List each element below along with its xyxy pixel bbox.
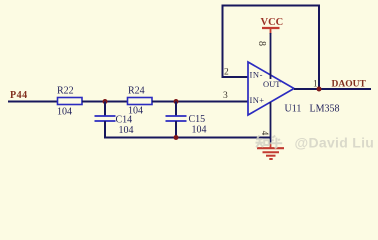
svg-text:8: 8 [256, 41, 267, 46]
ground [257, 144, 284, 160]
wire output [294, 88, 371, 90]
svg-text:U11: U11 [285, 104, 302, 115]
wire feedback left vertical [222, 6, 224, 79]
svg-text:104: 104 [192, 125, 207, 136]
svg-text:104: 104 [128, 106, 143, 117]
wire pin 2 horizontal [222, 76, 249, 78]
wire R22 to R24 [82, 101, 128, 103]
pin 4 label [260, 131, 270, 136]
svg-text:104: 104 [57, 107, 72, 118]
VCC power symbol [261, 17, 284, 34]
node junction at C14 top [103, 99, 108, 104]
wire C15 bottom drop [175, 121, 177, 139]
svg-text:104: 104 [119, 125, 134, 136]
wire R24 to op-amp pin 3 [152, 101, 248, 103]
svg-text:@David Liu: @David Liu [295, 135, 375, 151]
wire C14 bottom drop [104, 121, 106, 139]
capacitor C15 [166, 114, 207, 136]
wire feedback right vertical [318, 6, 320, 91]
svg-text:DAOUT: DAOUT [332, 80, 367, 90]
svg-text:IN+: IN+ [250, 95, 265, 105]
pin 8 label [256, 41, 267, 46]
svg-text:R22: R22 [57, 86, 74, 97]
svg-text:C15: C15 [189, 114, 206, 125]
port P44 [10, 90, 28, 101]
node junction at C15 top [174, 99, 179, 104]
pin 3 label [223, 91, 228, 101]
svg-text:3: 3 [223, 91, 228, 101]
op-amp U11 [248, 62, 340, 115]
svg-text:1: 1 [313, 80, 318, 90]
svg-text:IN-: IN- [250, 70, 264, 80]
wire C15 top drop [175, 102, 177, 117]
svg-text:LM358: LM358 [310, 104, 340, 115]
resistor R24 [128, 86, 153, 117]
node junction at output [317, 87, 322, 92]
node junction at C15 bottom [174, 135, 179, 140]
svg-text:P44: P44 [10, 90, 28, 101]
pin 2 label [224, 68, 229, 78]
wire C14 top drop [104, 102, 106, 117]
wire pin 4 to ground [270, 102, 272, 145]
resistor R22 [57, 86, 82, 118]
svg-text:4: 4 [260, 131, 270, 136]
svg-text:VCC: VCC [261, 17, 284, 28]
wire VCC to pin 8 [270, 33, 272, 79]
svg-text:R24: R24 [128, 86, 145, 97]
capacitor C14 [95, 115, 134, 137]
svg-text:OUT: OUT [263, 79, 281, 89]
port DAOUT [332, 80, 367, 90]
wire P44 to R22 [8, 101, 58, 103]
wire bottom rail [104, 137, 271, 139]
pin 1 label [313, 80, 318, 90]
wire feedback top horizontal [222, 5, 321, 7]
